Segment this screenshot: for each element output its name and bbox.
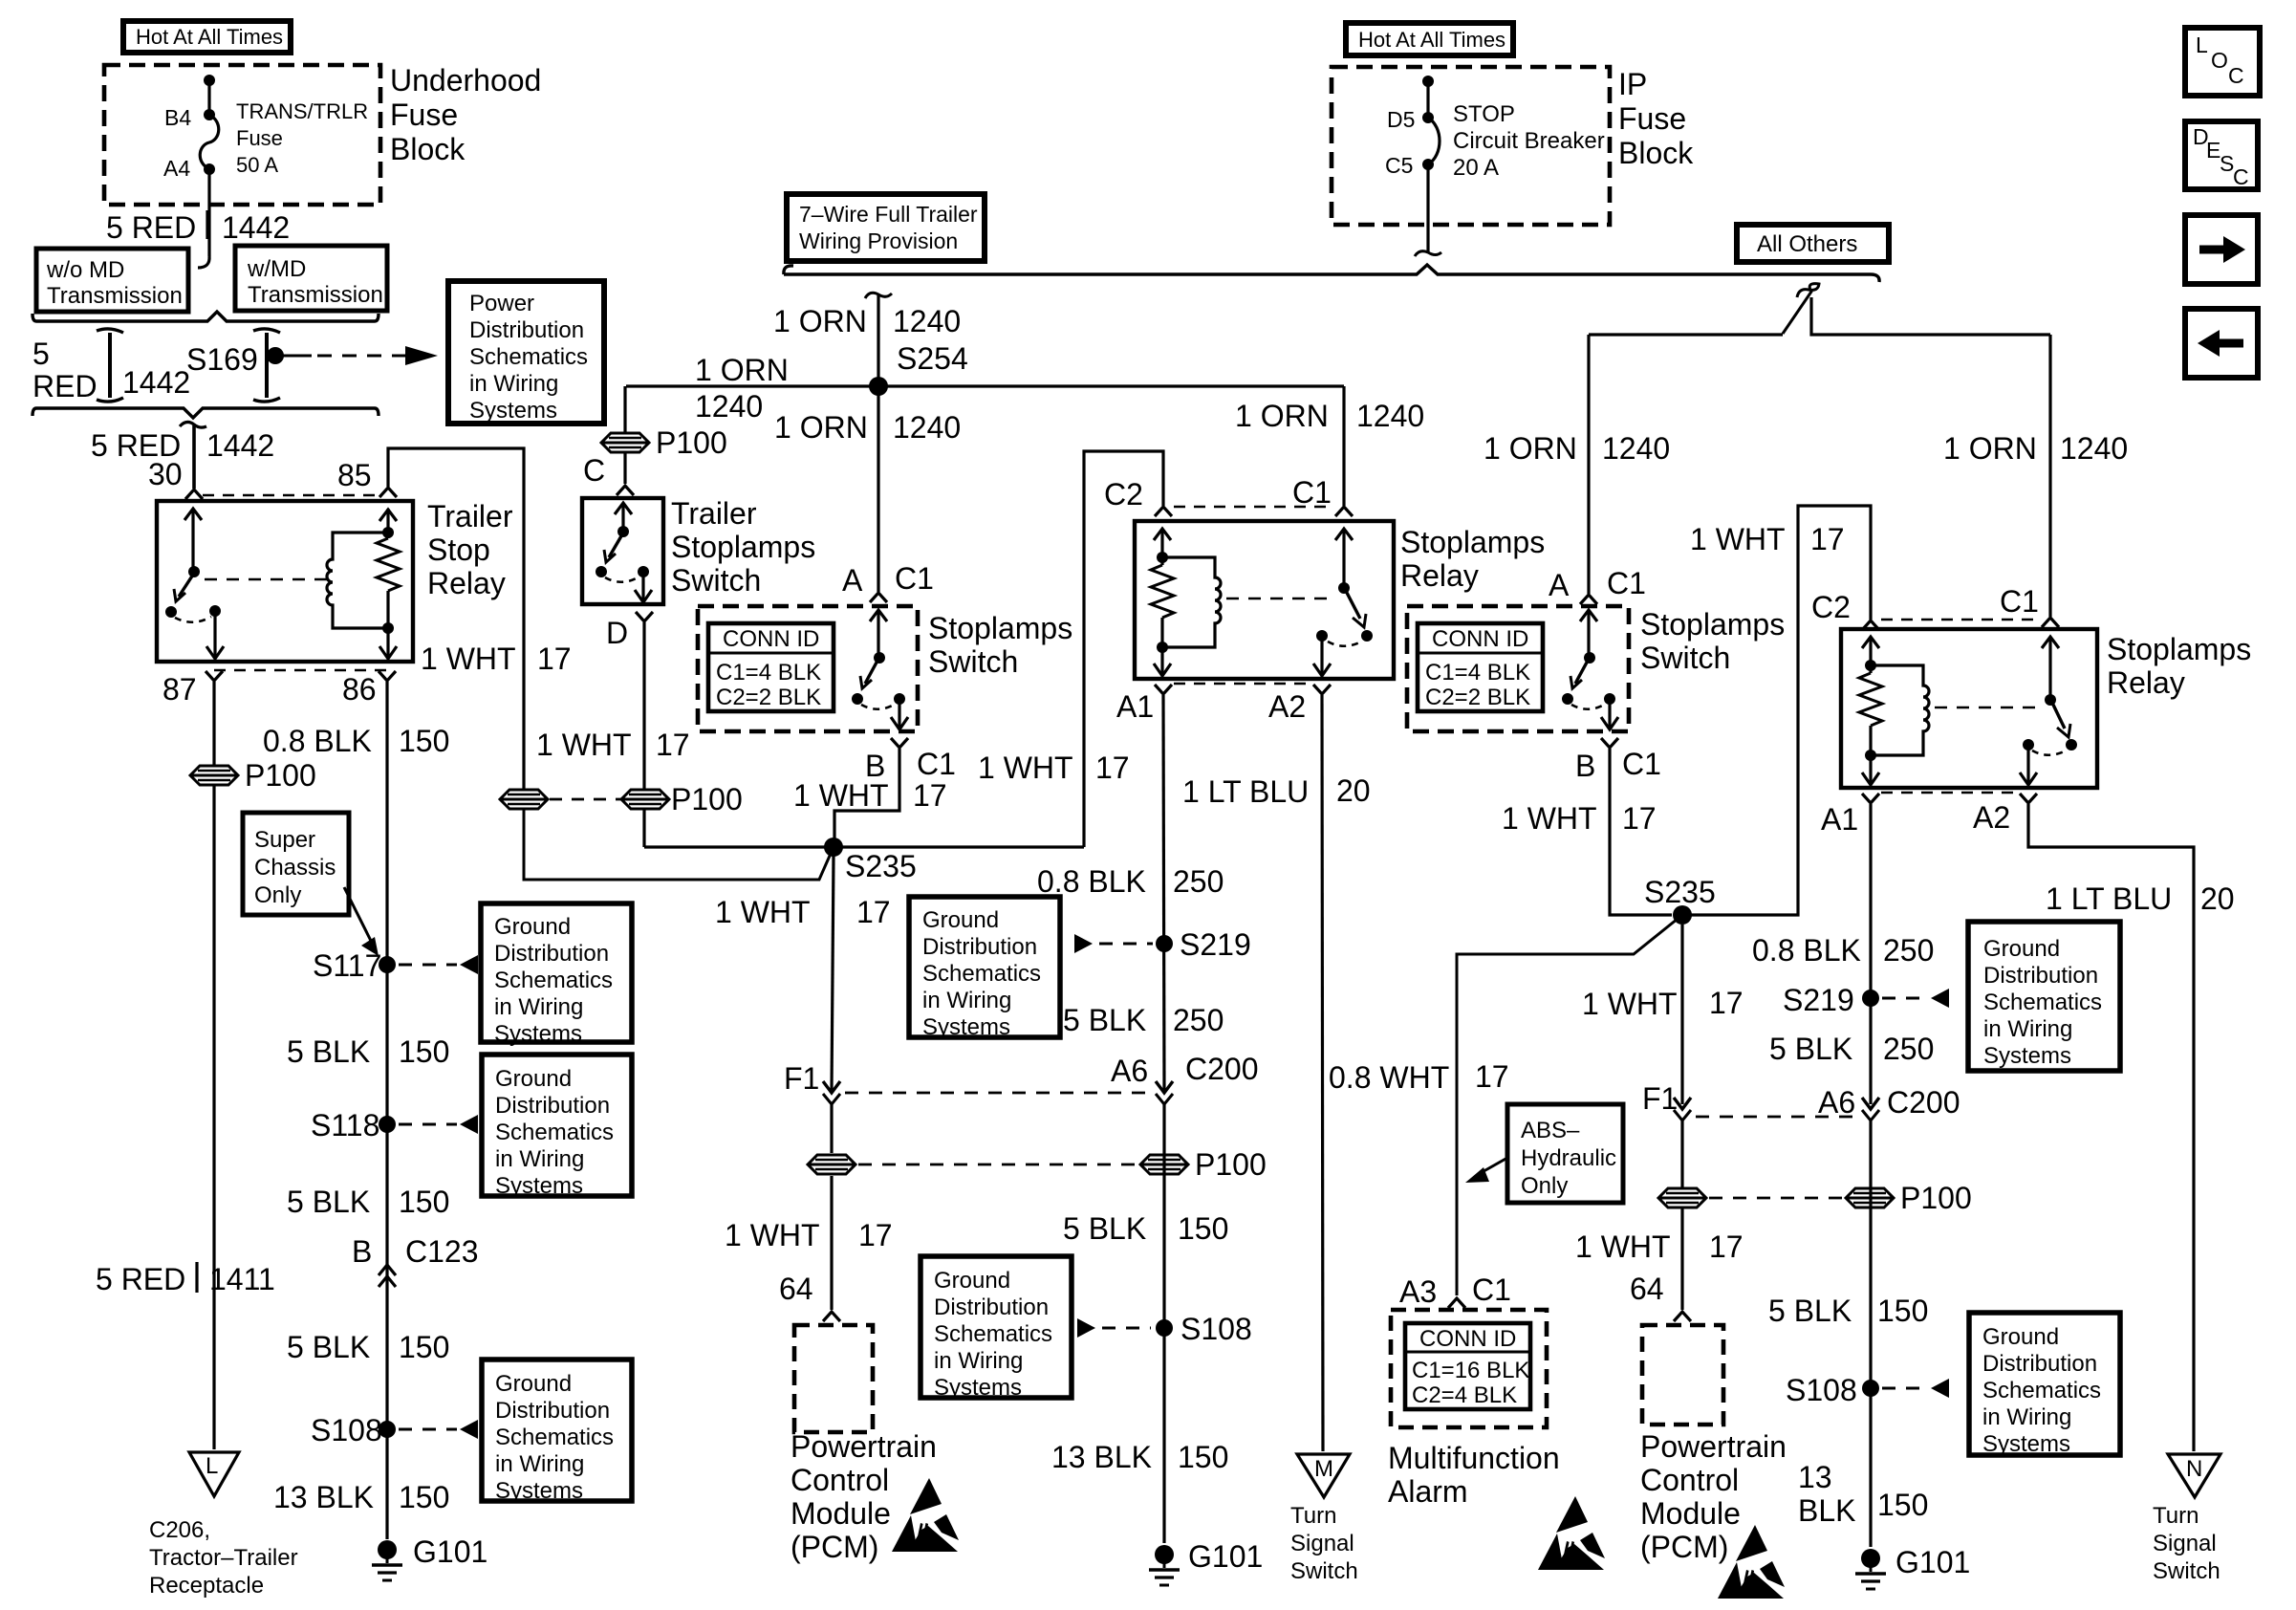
label box: Hot At All Times (left) [123,21,291,53]
Powertrain Control Module dashed box (center) [794,1325,873,1432]
svg-text:Fuse: Fuse [1618,101,1686,136]
svg-text:A2: A2 [1268,689,1306,724]
svg-text:1 WHT: 1 WHT [715,895,811,929]
dashed link ground distribution to S108 (center) [1077,1318,1151,1338]
svg-text:S169: S169 [186,342,258,377]
dashed link ground distribution to S219 [1074,934,1153,953]
svg-text:C1: C1 [1607,566,1646,600]
label: Turn Signal Switch (N) [2153,1503,2220,1584]
svg-text:A1: A1 [1116,689,1154,724]
label box: Ground Distribution Schematics (S108 left) [482,1360,632,1504]
svg-text:150: 150 [399,1185,449,1219]
ESD symbol (right PCM) [1718,1525,1785,1599]
splice S118 [311,1108,396,1142]
terminal A1 [1155,685,1172,694]
svg-text:1 WHT: 1 WHT [1502,801,1597,836]
svg-text:C200: C200 [1887,1085,1960,1120]
svg-text:C200: C200 [1185,1052,1259,1086]
svg-text:Alarm: Alarm [1388,1474,1468,1509]
svg-text:0.8 BLK: 0.8 BLK [263,724,372,758]
wire A6 to S108 to G101 (center) [1162,1104,1165,1543]
wire S235 down to F1 [832,856,834,1090]
wire S254 horizontal [626,384,1344,387]
all-others split pigtail [1589,284,2050,335]
label: 5 RED 1442 (top) [106,210,290,245]
dashed link S108 to ground distribution (right) [1882,1379,1949,1398]
svg-text:A: A [842,563,863,598]
svg-text:1 ORN: 1 ORN [1484,431,1577,466]
svg-text:Transmission: Transmission [47,283,183,309]
brace bottom (options) [32,408,379,418]
label: 1 WHT 17 (right switch B wire) [1502,801,1657,836]
svg-text:S219: S219 [1180,927,1251,962]
CONN ID table (right switch) [1418,623,1543,711]
svg-text:CONN ID: CONN ID [723,626,819,652]
svg-text:17: 17 [1709,986,1744,1020]
svg-text:86: 86 [342,672,377,707]
svg-text:G101: G101 [413,1534,487,1569]
label box: Ground Distribution Schematics (S219 right) [1968,922,2120,1071]
svg-text:Relay: Relay [427,566,506,600]
label: 1 WHT 17 (PCM center) [725,1218,893,1252]
connector dashed line below relay [214,669,387,672]
terminal A3 [1448,1298,1465,1308]
svg-text:Relay: Relay [1400,558,1479,593]
svg-text:CONN ID: CONN ID [1419,1326,1516,1352]
svg-text:C1: C1 [2000,584,2039,619]
svg-text:CONN ID: CONN ID [1432,626,1528,652]
label: 1 ORN 1240 (center relay C1) [1235,399,1424,433]
svg-text:150: 150 [399,1480,449,1514]
wire S235 to C2 riser (right) [1682,506,1871,915]
label box: arrow left [2185,309,2258,378]
svg-text:in Wiring: in Wiring [469,371,558,397]
svg-text:64: 64 [1630,1272,1664,1306]
Trailer Stoplamps Switch box [582,498,663,604]
wire A1 down (center) [1163,695,1164,1090]
label: Underhood Fuse Block [390,63,541,166]
connector dashed line below right relay [1881,792,2018,794]
connector P100 pair (right) [1658,1181,1972,1215]
svg-text:S108: S108 [1786,1373,1857,1407]
svg-text:C1: C1 [895,561,934,596]
svg-text:150: 150 [399,724,449,758]
trailer stoplamps switch contacts [596,503,652,602]
svg-text:150: 150 [399,1034,449,1069]
splice S108 (left) [311,1413,396,1447]
off-page connector L (C206) [189,1452,239,1496]
svg-text:5 RED: 5 RED [96,1262,185,1296]
svg-text:C2=2 BLK: C2=2 BLK [1425,685,1530,710]
terminal C1 (right relay) [2042,618,2059,627]
svg-text:A: A [1549,568,1570,602]
svg-text:C2: C2 [1811,590,1851,624]
svg-text:Turn: Turn [1290,1503,1336,1529]
wire 5 RED 1411 down to C206 [212,786,215,1449]
svg-text:17: 17 [1095,751,1130,785]
label box: w/MD Transmission [235,246,387,311]
svg-text:A3: A3 [1399,1274,1437,1309]
svg-text:S108: S108 [1180,1312,1252,1346]
label: 0.8 BLK 150 [263,724,449,758]
label box: Ground Distribution Schematics (S219 center) [909,897,1060,1040]
wire 86 to S117 [385,682,388,1539]
label: 1 WHT 17 (right F1) [1582,986,1744,1021]
svg-text:Fuse: Fuse [390,98,458,132]
splice S108 (center) [1156,1312,1252,1346]
svg-text:1240: 1240 [1356,399,1424,433]
svg-text:Signal: Signal [2153,1531,2217,1556]
svg-text:P100: P100 [245,758,316,793]
label: 5 RED (stacked) [32,337,97,403]
label: 1 WHT 17 (S235 to F1) [715,895,891,929]
svg-text:1 ORN: 1 ORN [695,353,789,387]
label: Stoplamps Relay (right) [2107,632,2251,700]
svg-text:Stoplamps: Stoplamps [928,611,1072,645]
label: 1 WHT 17 (D wire) [536,728,690,762]
svg-text:L: L [206,1453,218,1479]
svg-text:150: 150 [399,1330,449,1364]
svg-text:Module: Module [791,1496,891,1531]
Powertrain Control Module dashed box (right) [1642,1325,1723,1425]
svg-text:C123: C123 [405,1234,479,1269]
label: 5 BLK 150 (2) [287,1185,449,1219]
svg-text:C2=4 BLK: C2=4 BLK [1412,1382,1517,1408]
svg-text:A6: A6 [1818,1085,1855,1120]
svg-text:RED: RED [32,369,97,403]
label: 5 BLK 150 (1) [287,1034,449,1069]
terminal D [636,612,653,621]
splice S219 (center) [1156,927,1251,962]
svg-text:(PCM): (PCM) [791,1530,878,1564]
svg-text:Module: Module [1640,1496,1741,1531]
svg-text:64: 64 [779,1272,813,1306]
label box: All Others [1737,225,1889,262]
svg-text:C2: C2 [1104,477,1143,511]
svg-text:A1: A1 [1821,802,1858,837]
label box: Hot At All Times (right) [1346,23,1513,55]
svg-text:13 BLK: 13 BLK [273,1480,374,1514]
terminal 30 [185,490,203,499]
svg-text:Switch: Switch [1640,641,1730,675]
svg-text:w/MD: w/MD [247,256,306,282]
connector dashed line below center relay [1174,683,1311,685]
svg-text:C1=4 BLK: C1=4 BLK [716,660,821,685]
relay resistor (pin 85 to 86) [377,509,400,659]
svg-text:L: L [2196,33,2208,57]
svg-text:Switch: Switch [1290,1558,1358,1584]
svg-text:1442: 1442 [122,365,190,400]
svg-text:5 BLK: 5 BLK [287,1185,370,1219]
svg-text:1442: 1442 [206,428,274,463]
wire S235 horizontals [644,845,1084,848]
svg-text:Block: Block [390,132,466,166]
connector P100 pair (center) [808,1147,1267,1182]
svg-text:17: 17 [1810,522,1845,556]
terminal C1 [1335,507,1353,516]
terminal A1 (right relay) [1862,794,1879,803]
dashed arrow to Power Distribution [275,346,438,365]
svg-text:20: 20 [1336,773,1371,808]
relay switch (right) [2020,637,2077,785]
svg-text:Switch: Switch [2153,1558,2220,1584]
wire from fuse A4 down [198,169,209,268]
stoplamps switch contacts (center) [852,610,908,729]
svg-text:5 BLK: 5 BLK [1063,1003,1146,1037]
Stoplamps Relay box (right) [1841,629,2097,788]
wire B to S235 [834,749,899,838]
label: 1 WHT 17 (right PCM) [1575,1229,1744,1264]
label: 1 WHT 17 (right C2 riser) [1690,522,1845,556]
svg-text:1 WHT: 1 WHT [421,642,516,676]
svg-text:1240: 1240 [893,410,961,445]
svg-text:Wiring Provision: Wiring Provision [799,228,958,253]
relay actuation dashed link (right) [1935,707,2038,708]
svg-text:150: 150 [1877,1488,1928,1522]
bracket (5 RED 1442) [97,329,123,402]
label: Trailer Stop Relay [427,499,513,600]
label: TRANS/TRLR Fuse 50 A [236,99,368,177]
svg-text:Stoplamps: Stoplamps [671,530,815,564]
svg-text:150: 150 [1178,1440,1228,1474]
svg-text:50 A: 50 A [236,153,278,177]
svg-text:IP: IP [1618,67,1647,101]
svg-text:Receptacle: Receptacle [149,1573,264,1599]
circuit breaker STOP 20A [1422,76,1440,170]
svg-text:C: C [2228,63,2244,88]
svg-text:M: M [1314,1456,1333,1482]
relay actuation dashed link (center) [1226,598,1331,599]
svg-text:C1: C1 [1292,475,1332,510]
svg-text:5 BLK: 5 BLK [1769,1032,1852,1066]
svg-text:1 ORN: 1 ORN [1235,399,1329,433]
label: 0.8 BLK 250 [1037,864,1224,899]
svg-text:Block: Block [1618,136,1694,170]
svg-text:S235: S235 [1644,875,1716,909]
splice S254 [869,377,888,396]
svg-text:Control: Control [791,1463,889,1497]
svg-text:G101: G101 [1188,1539,1263,1574]
wire A1 down (right) [1869,804,1872,1104]
svg-text:17: 17 [856,895,891,929]
svg-text:Circuit Breaker: Circuit Breaker [1453,128,1605,154]
label: 1 WHT 17 (riser) [421,642,572,676]
wire B to S235 (right) [1610,749,1672,915]
svg-text:Relay: Relay [2107,665,2185,700]
relay coil [327,533,388,628]
svg-text:87: 87 [162,672,197,707]
svg-text:1411: 1411 [209,1262,275,1296]
label: Stoplamps Relay (center) [1400,525,1545,593]
wire stub below brace [180,422,206,489]
svg-text:Hot At All Times: Hot At All Times [1358,28,1505,52]
svg-text:S117: S117 [313,948,381,983]
arrow Super Chassis to S117 [344,887,379,956]
wire left branch down to P100 [623,386,626,433]
label box: DESC [2185,121,2258,189]
svg-text:B: B [352,1234,372,1269]
svg-text:S254: S254 [897,341,968,376]
svg-text:85: 85 [337,458,372,492]
wire D down to S235 [642,622,645,847]
wire F1 to P100 (center) [830,1104,833,1153]
Trailer Stop Relay box [157,501,413,662]
svg-text:Power: Power [469,291,534,316]
svg-text:C: C [2233,164,2249,189]
wire P100 to PCM 64 (right) [1680,1208,1683,1310]
wire A2 down to M (1 LT BLU) [1322,695,1323,1451]
wire riser to pin 85 [388,448,524,789]
label box: Ground Distribution Schematics (S108 center) [921,1256,1072,1401]
svg-text:Switch: Switch [928,644,1018,679]
svg-text:5 BLK: 5 BLK [287,1034,370,1069]
label: Stoplamps Switch (center) [928,611,1072,679]
Multifunction Alarm dashed box [1391,1310,1547,1427]
dashed link S219 to ground distribution (right) [1882,989,1949,1008]
svg-text:C1: C1 [1622,747,1661,781]
splice S219 (right) [1783,983,1879,1017]
svg-text:Stoplamps: Stoplamps [2107,632,2251,666]
svg-text:Powertrain: Powertrain [791,1429,937,1464]
svg-text:20: 20 [2200,881,2235,916]
label: 1 ORN 1240 (right relay C1) [1943,431,2128,466]
svg-text:N: N [2186,1456,2202,1482]
svg-text:1 WHT: 1 WHT [1690,522,1786,556]
svg-text:A6: A6 [1111,1054,1148,1088]
terminal B [891,738,908,748]
label: 1 WHT 17 (C2 riser) [978,751,1130,785]
svg-text:S219: S219 [1783,983,1854,1017]
stoplamps switch contacts (right) [1562,610,1618,729]
label: 13 BLK 150 (right, stacked) [1798,1460,1928,1528]
svg-text:Multifunction: Multifunction [1388,1441,1560,1475]
svg-text:17: 17 [1709,1229,1744,1264]
label: 5 RED 1442 (above relay) [91,428,274,463]
relay switch (center) [1313,529,1373,676]
svg-text:P100: P100 [1195,1147,1267,1182]
Stoplamps Relay box (center) [1135,521,1394,679]
svg-text:20 A: 20 A [1453,155,1499,181]
off-page connector M (turn signal) [1297,1454,1350,1497]
svg-text:Switch: Switch [671,563,761,598]
ground G101 (right) [1855,1545,1970,1589]
svg-text:S108: S108 [311,1413,382,1447]
terminal A2 [1313,685,1331,694]
svg-text:1 WHT: 1 WHT [1575,1229,1671,1264]
svg-text:All Others: All Others [1757,231,1857,257]
wire F1 to P100 (right) [1680,1120,1683,1187]
label box: Super Chassis Only [243,813,349,915]
svg-text:D5: D5 [1387,107,1415,132]
svg-text:G101: G101 [1895,1545,1970,1579]
pin B / connector C123 [352,1234,479,1287]
label: 1 LT BLU 20 (right) [2046,881,2235,916]
terminal C [617,486,634,495]
svg-text:Underhood: Underhood [390,63,541,98]
relay coil+resistor (right) [1859,637,1929,785]
svg-text:C5: C5 [1385,153,1413,178]
svg-text:17: 17 [537,642,572,676]
svg-text:Fuse: Fuse [236,126,283,150]
svg-text:Powertrain: Powertrain [1640,1429,1787,1464]
label: 1 ORN 1240 (below S254) [774,410,961,445]
label box: Ground Distribution Schematics (S118) [482,1055,632,1199]
label box: Ground Distribution Schematics (S108 right) [1969,1313,2120,1457]
svg-text:D: D [606,616,628,650]
label: STOP Circuit Breaker 20 A [1453,101,1605,181]
Stoplamps Switch dashed box (right) [1407,606,1629,731]
splice S117 [313,948,396,983]
wire P100 to PCM 64 (center) [830,1176,833,1310]
connector C200 (center F1/A6) [823,1081,1173,1104]
svg-text:Systems: Systems [469,398,557,424]
label: 5 BLK 250 (right) [1769,1032,1934,1066]
svg-text:A2: A2 [1973,800,2010,835]
brace top (options) [32,312,379,321]
wire 87 down [212,682,215,765]
svg-text:1 WHT: 1 WHT [725,1218,820,1252]
svg-text:1 ORN: 1 ORN [1943,431,2037,466]
CONN ID table (stoplamps switch) [708,623,834,711]
label: 1 LT BLU 20 (center) [1182,773,1371,809]
label: 0.8 WHT 17 (alarm wire) [1329,1059,1509,1095]
off-page connector N (turn signal) [2168,1454,2220,1497]
svg-text:P100: P100 [1900,1181,1972,1215]
label: 5 BLK 150 (3) [287,1330,449,1364]
svg-text:S118: S118 [311,1108,379,1142]
svg-text:(PCM): (PCM) [1640,1530,1728,1564]
svg-text:A4: A4 [163,156,190,181]
terminal 87 [206,671,223,681]
svg-text:C1: C1 [917,747,956,781]
svg-text:5 RED: 5 RED [106,210,196,245]
label box: ABS-Hydraulic Only [1507,1104,1623,1203]
svg-text:Trailer: Trailer [427,499,513,533]
svg-text:Trailer: Trailer [671,496,757,531]
svg-text:C2=2 BLK: C2=2 BLK [716,685,821,710]
label: 5 BLK 150 (right) [1768,1294,1928,1328]
svg-text:Control: Control [1640,1463,1739,1497]
svg-text:B: B [1575,749,1595,783]
ground G101 (center) [1149,1539,1263,1585]
connector dashed line above center relay [1174,506,1333,509]
label: 13 BLK 150 [273,1480,449,1514]
relay actuation dashed link [205,578,327,580]
pin A6 / label C200 (center) [1111,1052,1259,1088]
svg-text:P100: P100 [656,425,727,460]
wire C1 (center relay) [1342,386,1345,506]
wire P100 to C terminal [623,452,626,484]
svg-text:Chassis: Chassis [254,855,336,881]
svg-text:P100: P100 [671,782,743,816]
svg-text:w/o MD: w/o MD [46,257,124,283]
dashed link S117 to ground distribution [399,955,478,974]
svg-text:C206,: C206, [149,1517,210,1543]
svg-text:5 BLK: 5 BLK [1768,1294,1852,1328]
splice S108 (right) [1786,1373,1879,1407]
svg-text:BLK: BLK [1798,1493,1855,1528]
svg-text:ABS–: ABS– [1521,1118,1580,1143]
connector C200 (right F1/A6) [1674,1098,1879,1120]
svg-text:17: 17 [1622,801,1657,836]
svg-text:5: 5 [32,337,50,371]
relay coil+resistor (center) [1151,529,1221,676]
svg-text:17: 17 [858,1218,893,1252]
label: Powertrain Control Module (PCM) (right) [1640,1429,1787,1564]
svg-text:250: 250 [1173,864,1224,899]
svg-text:C1=16 BLK: C1=16 BLK [1412,1358,1529,1383]
terminal 85 [379,488,397,497]
